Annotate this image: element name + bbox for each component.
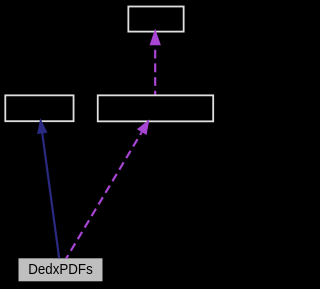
node middle box — [98, 95, 213, 121]
svg-text:DedxPDFs: DedxPDFs — [28, 262, 93, 278]
edge usage arrow vertical (dashed purple) — [150, 29, 161, 95]
node top box — [128, 7, 183, 32]
node left box — [5, 95, 73, 121]
edge inheritance arrow (solid navy) — [37, 118, 59, 259]
node DedxPDFs — [19, 258, 103, 281]
edge usage arrow diagonal (dashed purple) — [66, 119, 149, 258]
